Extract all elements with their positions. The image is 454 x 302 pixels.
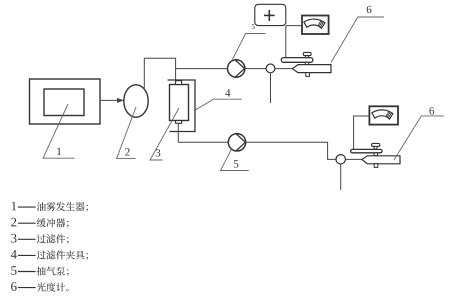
bottom body foot	[374, 164, 378, 168]
top photometer body 6	[292, 65, 331, 73]
buffer 2 (ellipse)	[124, 85, 148, 117]
photometer meter 6 (bottom row gauge)	[369, 106, 398, 124]
wire bottom meter to plate	[354, 116, 370, 149]
bottom photometer clamp plate	[351, 149, 383, 152]
legend line 1	[12, 202, 17, 211]
oil mist generator box 1 (inner)	[44, 89, 84, 116]
top plate-body connector	[305, 62, 309, 64]
bottom plate-body connector	[374, 153, 378, 156]
legend line 3	[11, 234, 16, 243]
photometer meter 6 (top row gauge)	[302, 16, 329, 35]
leader for label 4	[195, 99, 242, 110]
leader for label 3	[150, 108, 179, 160]
label 2	[125, 148, 129, 155]
bottom label 6	[429, 107, 434, 114]
top body foot	[306, 73, 310, 77]
wire generator to buffer with arrowhead	[100, 99, 118, 101]
leader for bottom label 5	[221, 149, 249, 171]
bottom junction circle	[336, 155, 345, 164]
wire valve box to meter	[286, 25, 302, 27]
bottom screw stem	[374, 146, 377, 149]
exhaust wire below bottom junction	[340, 164, 342, 190]
legend line 4	[11, 250, 17, 259]
label 1	[57, 148, 61, 155]
top screw cap	[303, 52, 311, 55]
filter bottom nub	[176, 121, 182, 124]
wire branch to top pump	[176, 68, 228, 70]
top label 5	[252, 24, 255, 29]
wire valve box down to photometer plate	[285, 26, 287, 58]
top photometer clamp plate	[281, 58, 313, 63]
leader for bottom label 6	[394, 116, 444, 160]
top screw stem	[306, 55, 309, 58]
wire top pump to junction	[245, 68, 266, 70]
filter element 3 (cartridge)	[170, 85, 189, 121]
pump 5 (top row)	[228, 60, 245, 77]
leader for top label 6	[331, 17, 384, 63]
wire junction to photometer tip	[275, 68, 292, 70]
legend line 6	[11, 282, 16, 291]
pump 5 (bottom row)	[228, 134, 245, 151]
wire lower pump to lower junction	[246, 142, 336, 159]
leader for label 2	[117, 107, 136, 159]
label 3	[156, 149, 161, 156]
legend line 5	[11, 266, 16, 275]
bottom screw cap	[372, 143, 380, 146]
legend line 2	[11, 218, 16, 227]
oil mist generator box 1 (outer)	[30, 79, 101, 124]
wire buffer top up	[144, 58, 175, 88]
wire junction to lower photometer tip	[345, 158, 362, 160]
filter top nub	[176, 81, 182, 85]
top label 6	[367, 6, 372, 13]
exhaust wire below top junction	[270, 73, 272, 103]
valve box with plus sign	[255, 4, 286, 25]
filter fixture 4 (clamp bracket)	[168, 80, 196, 132]
bottom label 5	[234, 160, 239, 167]
label 4	[225, 89, 230, 96]
bottom photometer body 6	[362, 156, 400, 164]
leader for top label 5	[232, 34, 265, 60]
leader for label 1	[43, 104, 75, 158]
wire filter bottom to lower pump	[178, 123, 228, 142]
top junction circle	[266, 64, 275, 73]
